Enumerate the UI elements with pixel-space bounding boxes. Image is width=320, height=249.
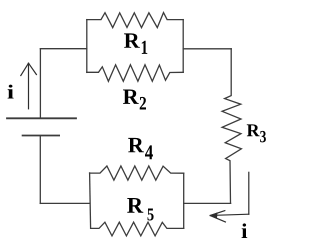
- resistor R2: [87, 65, 183, 82]
- wire: bottom-right horizontal rail: [184, 202, 231, 204]
- label R1: [124, 33, 147, 54]
- node D : bottom parallel block left vertical bus: [90, 173, 91, 228]
- current arrow i (left, pointing up): [21, 63, 37, 109]
- wire: bottom-left horizontal rail: [40, 202, 90, 204]
- resistor R5: [91, 222, 184, 236]
- label R4: [128, 138, 153, 159]
- node A : top parallel block left vertical bus: [86, 20, 88, 73]
- label R3: [247, 124, 266, 142]
- battery B1 negative plate (short): [23, 135, 60, 137]
- label R2: [123, 90, 146, 110]
- label R5: [127, 198, 153, 221]
- wire: left vertical (battery + to top rail): [39, 49, 41, 118]
- resistor R3 (vertical, with leads): [222, 49, 241, 204]
- label i (bottom current): [242, 223, 248, 238]
- resistor R4: [90, 166, 184, 180]
- battery B1 positive plate (long): [7, 117, 76, 119]
- wire: left vertical (battery - to bottom rail): [39, 136, 41, 204]
- wire: top-right horizontal rail: [183, 48, 231, 50]
- resistor R1: [87, 13, 183, 28]
- node B : top parallel block right vertical bus: [182, 20, 184, 73]
- current arrow i (bottom right, pointing left): [210, 172, 249, 222]
- wire: top-left horizontal rail: [40, 48, 86, 50]
- label i (left current): [8, 85, 14, 99]
- node C : bottom parallel block right vertical bus: [183, 173, 185, 228]
